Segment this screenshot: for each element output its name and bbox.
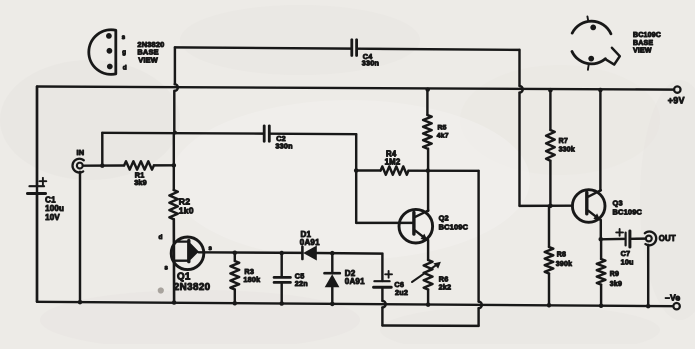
svg-text:BC109C: BC109C bbox=[613, 207, 643, 216]
svg-text:22n: 22n bbox=[295, 279, 308, 288]
svg-text:390k: 390k bbox=[556, 261, 572, 268]
svg-text:R8: R8 bbox=[557, 251, 566, 258]
svg-text:s: s bbox=[122, 35, 126, 41]
svg-text:–Ve: –Ve bbox=[665, 293, 680, 303]
svg-text:1M2: 1M2 bbox=[385, 158, 401, 167]
svg-text:2u2: 2u2 bbox=[395, 288, 408, 297]
svg-text:s: s bbox=[165, 266, 169, 272]
svg-text:1k0: 1k0 bbox=[179, 205, 194, 215]
svg-text:180k: 180k bbox=[243, 275, 261, 284]
svg-text:s: s bbox=[209, 246, 213, 252]
svg-text:R5: R5 bbox=[438, 124, 447, 131]
svg-text:2k2: 2k2 bbox=[439, 282, 452, 291]
svg-text:BC109C: BC109C bbox=[439, 223, 469, 232]
svg-text:R7: R7 bbox=[559, 138, 568, 145]
svg-text:d: d bbox=[123, 64, 127, 71]
svg-text:BC109C: BC109C bbox=[633, 32, 661, 39]
svg-text:Q1: Q1 bbox=[177, 272, 191, 283]
svg-text:Q2: Q2 bbox=[439, 214, 449, 223]
svg-text:0A91: 0A91 bbox=[345, 277, 365, 286]
svg-text:330k: 330k bbox=[559, 147, 575, 154]
svg-text:330n: 330n bbox=[362, 58, 379, 67]
svg-text:0A91: 0A91 bbox=[300, 238, 320, 247]
svg-text:R9: R9 bbox=[610, 271, 619, 278]
svg-text:Q3: Q3 bbox=[613, 198, 623, 207]
svg-text:2N3820: 2N3820 bbox=[174, 282, 211, 293]
svg-text:C1: C1 bbox=[45, 196, 56, 205]
svg-text:BASE: BASE bbox=[633, 40, 653, 47]
svg-text:+9V: +9V bbox=[668, 96, 685, 106]
svg-text:OUT: OUT bbox=[659, 234, 676, 243]
svg-text:IN: IN bbox=[77, 148, 85, 157]
svg-text:330n: 330n bbox=[275, 142, 292, 151]
svg-text:4k7: 4k7 bbox=[437, 133, 449, 140]
svg-text:g: g bbox=[122, 50, 126, 56]
svg-text:10u: 10u bbox=[621, 257, 634, 266]
svg-text:VIEW: VIEW bbox=[633, 48, 652, 55]
svg-text:d: d bbox=[159, 234, 163, 241]
svg-text:VIEW: VIEW bbox=[138, 55, 158, 64]
svg-text:10V: 10V bbox=[45, 213, 60, 222]
svg-text:3k9: 3k9 bbox=[134, 178, 147, 187]
svg-text:3k9: 3k9 bbox=[610, 281, 622, 288]
